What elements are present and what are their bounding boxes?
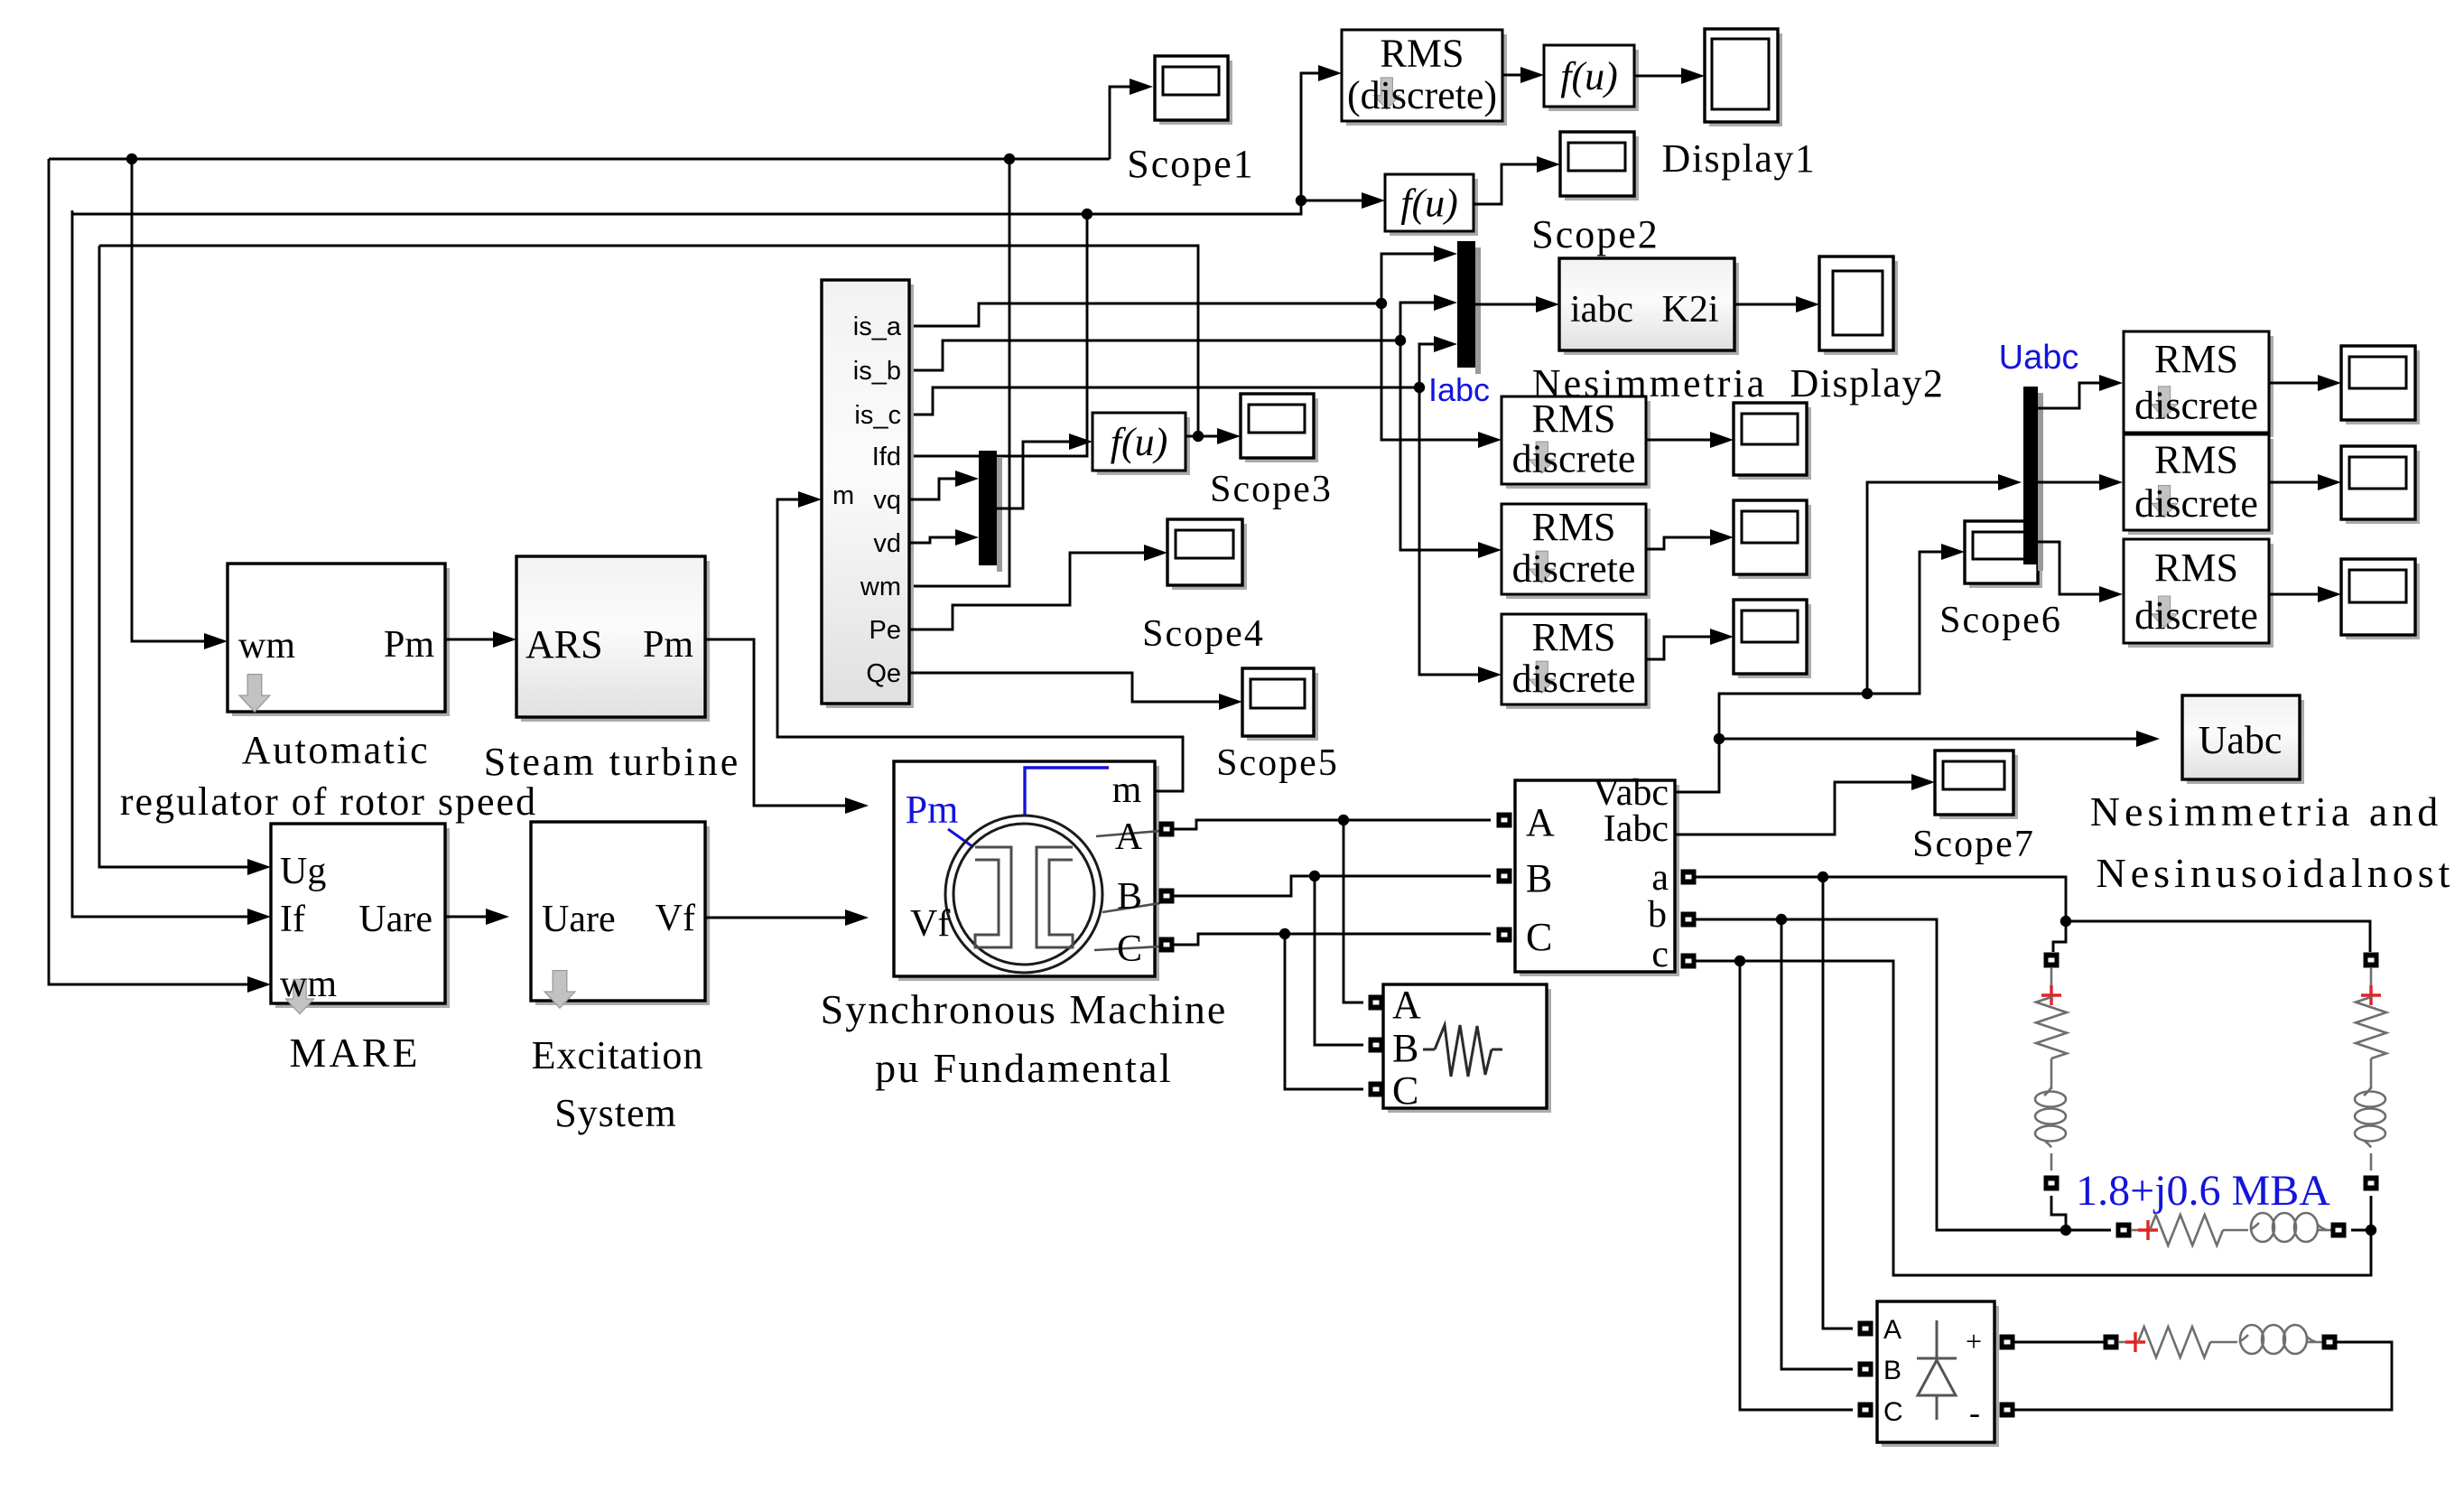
svg-text:Ug: Ug — [280, 851, 326, 892]
svg-text:RMS: RMS — [2154, 337, 2238, 381]
display square (XY) top right — [1709, 33, 1782, 126]
svg-text:Scope6: Scope6 — [1939, 600, 2062, 641]
node: is_b junction — [1395, 335, 1406, 346]
block Bus Selector (machine measurements demux) — [826, 284, 914, 708]
node: is_c junction / Iabc tag — [1414, 382, 1425, 393]
arrow into Scope1 — [1130, 79, 1153, 95]
wire: demux out 1 to RMS — [2038, 383, 2101, 408]
scope display after RMS2 — [1738, 505, 1811, 579]
svg-text:iabc: iabc — [1570, 289, 1633, 331]
load A input port — [1369, 995, 1384, 1011]
svg-text:discrete: discrete — [1512, 546, 1636, 591]
wire: MARE Uare to Excitation — [445, 916, 488, 919]
wire: f(u)2 to Scope2 — [1474, 164, 1539, 204]
arrow into MARE wm — [247, 976, 271, 993]
svg-text:System: System — [554, 1091, 677, 1135]
node: is_a junction — [1376, 298, 1387, 309]
block Uabc goto — [2187, 700, 2304, 784]
svg-text:-: - — [1969, 1394, 1980, 1431]
branch3 link — [2223, 1229, 2248, 1232]
wire: branch into Fcn f(u)2 — [1301, 200, 1363, 202]
svg-text:pu Fundamental: pu Fundamental — [875, 1045, 1173, 1091]
block Universal Bridge (diode rectifier) — [1882, 1306, 1999, 1447]
svg-text:K2i: K2i — [1662, 289, 1719, 331]
wire: f(u)1 to display square — [1634, 75, 1683, 78]
inductor branch4 — [2239, 1335, 2248, 1342]
svg-text:discrete: discrete — [2134, 481, 2258, 526]
branch2 lead — [2370, 967, 2373, 986]
svg-text:f(u): f(u) — [1111, 420, 1168, 464]
svg-text:MARE: MARE — [290, 1030, 421, 1076]
display Display2 square — [1824, 261, 1898, 355]
wire: Steam turbine Pm to Synchronous Machine Pm — [705, 639, 847, 806]
branch1 link — [2050, 1058, 2053, 1089]
svg-text:Steam turbine: Steam turbine — [484, 740, 741, 784]
svg-text:B: B — [1883, 1356, 1901, 1385]
diode symbol — [1917, 1320, 1957, 1420]
scope Scope6 — [1969, 526, 2042, 588]
wire: is_a riser/drop vertical — [1381, 254, 1480, 440]
svg-text:Iabc: Iabc — [1428, 371, 1490, 408]
arrow into f(u)3 — [1069, 434, 1093, 450]
block RMS discrete 3 (left stack) — [1506, 619, 1650, 709]
scope display right 1 — [2346, 350, 2420, 424]
svg-text:wm: wm — [860, 573, 901, 601]
svg-text:RMS: RMS — [2154, 437, 2238, 481]
wire: wm source from demux wm port — [909, 159, 1009, 586]
RLC branch 4 right port — [2322, 1335, 2338, 1350]
wire: branch 4 return to bridge - — [2014, 1342, 2392, 1410]
bridge C input port — [1858, 1403, 1874, 1418]
arrow into RMS discrete 1 — [1478, 432, 1502, 448]
block Three-Phase V-I Measurement — [1520, 785, 1679, 976]
svg-text:discrete: discrete — [1512, 436, 1636, 480]
demux Uabc (black bar) — [2023, 387, 2038, 564]
svg-text:RMS: RMS — [1532, 505, 1616, 549]
mux Mux1 (currents) — [1457, 241, 1475, 368]
svg-text:C: C — [1117, 928, 1142, 970]
VI C input port — [1497, 928, 1512, 943]
wire: C tap down to load C — [1285, 934, 1363, 1089]
svg-text:f(u): f(u) — [1560, 54, 1618, 98]
inductor branch2 — [2364, 1087, 2371, 1096]
wire: K2i to Display2 square — [1734, 303, 1798, 306]
arrow into Excitation Uare — [486, 909, 509, 925]
arrow into RMS right 2 — [2099, 474, 2123, 490]
scope Scope2 — [1565, 136, 1639, 200]
arrow into machine Pm — [845, 797, 869, 814]
arrow into Scope7 — [1911, 774, 1935, 790]
arrow into RMS discrete 2 — [1478, 542, 1502, 558]
branch1 lead — [2050, 967, 2053, 986]
wire: mux2 to f(u)3 — [997, 442, 1071, 508]
VI B input port — [1497, 869, 1512, 884]
arrow into Scope2 — [1537, 156, 1560, 173]
svg-text:is_c: is_c — [854, 401, 901, 430]
svg-text:Automatic: Automatic — [242, 728, 430, 772]
block iabc K2i — [1564, 263, 1739, 355]
svg-text:c: c — [1651, 934, 1669, 975]
wire: machine B to VI measurement B — [1174, 876, 1491, 896]
wire: wm drop to ARS wm input — [132, 159, 206, 641]
arrow into iabc K2i — [1536, 296, 1559, 312]
wire: machine A to VI measurement A — [1174, 820, 1491, 829]
arrow into Uabc demux — [1998, 474, 2022, 490]
arrow into machine Vf — [845, 909, 869, 926]
block RMS discrete 2 (left stack) — [1506, 508, 1650, 599]
branch1 red plus — [2041, 985, 2061, 1005]
block RMS discrete right 3 — [2128, 544, 2273, 648]
wire: phase a line — [1696, 877, 2066, 921]
svg-text:Vf: Vf — [656, 898, 695, 939]
block Fcn f(u)2 — [1390, 179, 1478, 236]
node: phase c tap to rectifier C — [1734, 956, 1745, 966]
svg-text:Iabc: Iabc — [1604, 808, 1669, 850]
svg-text:ARS: ARS — [525, 622, 603, 667]
wire: c drop to rectifier C — [1740, 961, 1853, 1410]
svg-text:Scope2: Scope2 — [1531, 212, 1660, 256]
svg-text:Scope3: Scope3 — [1210, 469, 1333, 510]
VI a output port — [1681, 870, 1697, 885]
load C input port — [1369, 1082, 1384, 1097]
arrow into right scope 1 — [2318, 375, 2341, 391]
arrow into mux input 2 — [1434, 294, 1457, 311]
scope Scope3 — [1245, 398, 1318, 462]
wire: If bus left drop to MARE If input — [72, 210, 249, 917]
svg-text:discrete: discrete — [1512, 657, 1636, 701]
branch2 red plus — [2361, 985, 2381, 1005]
arrow into Scope5 — [1219, 694, 1242, 710]
wire: phase c line — [1696, 961, 2371, 1275]
block Excitation System — [535, 826, 710, 1005]
svg-text:Scope4: Scope4 — [1142, 613, 1265, 655]
wire: Ug feedback bus line (y=272) — [99, 246, 1198, 436]
node: phase b tap to rectifier B — [1776, 914, 1787, 925]
svg-text:m: m — [1112, 769, 1142, 811]
svg-text:RMS: RMS — [1532, 396, 1616, 441]
branch2 lead bottom — [2370, 1153, 2373, 1170]
svg-text:Vf: Vf — [910, 903, 950, 945]
wire: Ifd source from demux Ifd port — [909, 214, 1087, 456]
arrow vd into mux2 — [955, 529, 979, 546]
wire: bridge + to RLC branch 4 — [2014, 1341, 2105, 1344]
svg-text:1.8+j0.6 MBA: 1.8+j0.6 MBA — [2076, 1167, 2330, 1215]
node: phase b / left branch / RLC1 junction — [2060, 1225, 2071, 1236]
block Automatic regulator of rotor speed (ARS) — [232, 568, 450, 716]
wire: Vabc output riser — [1675, 694, 1867, 792]
machine C output port — [1159, 937, 1175, 953]
arrow vq into mux2 — [955, 471, 979, 487]
wire: mux to iabc K2i — [1475, 303, 1538, 306]
RLC branch 3 left port — [2116, 1223, 2132, 1238]
arrow into scope display 2 — [1710, 529, 1734, 546]
svg-text:A: A — [1392, 983, 1421, 1027]
svg-text:m: m — [832, 481, 854, 510]
wire: vq to mux2 — [909, 479, 957, 499]
arrow into Display2 square — [1796, 296, 1819, 312]
wire: left branch bottom to junction — [2051, 1196, 2066, 1230]
svg-text:C: C — [1392, 1068, 1418, 1113]
wire: RMS1 to scope display — [1646, 439, 1712, 442]
machine m measurement tap (blue) — [1025, 768, 1109, 816]
machine icon rotor brackets — [975, 847, 1011, 947]
branch4 lead — [2118, 1341, 2129, 1344]
wire: Pe to Scope4 — [909, 553, 1146, 629]
wire: demux out 3 to RMS — [2038, 542, 2101, 594]
wire: RMS to f(u)1 — [1502, 74, 1522, 77]
block Fcn f(u)1 — [1548, 50, 1639, 111]
svg-text:Pe: Pe — [869, 616, 901, 645]
block Steam turbine — [521, 561, 710, 722]
block RMS discrete right 1 — [2128, 336, 2273, 437]
scope Scope1 — [1159, 61, 1232, 125]
arrow into demux m input — [798, 491, 822, 508]
svg-text:is_a: is_a — [853, 312, 902, 341]
svg-text:(discrete): (discrete) — [1347, 73, 1497, 117]
wire: Iabc output to Scope7 — [1675, 782, 1913, 835]
svg-text:C: C — [1883, 1397, 1903, 1427]
machine A output port — [1159, 822, 1175, 837]
svg-text:Uare: Uare — [542, 899, 616, 940]
svg-text:RMS: RMS — [2154, 546, 2238, 590]
node: wm riser junction from demux wm port — [1004, 154, 1015, 164]
wire: machine C to VI measurement C — [1174, 934, 1491, 945]
svg-text:Display2: Display2 — [1790, 361, 1945, 406]
node: phase B tap to load — [1309, 871, 1320, 881]
arrow into right scope 3 — [2318, 586, 2341, 602]
arrow into Steam turbine — [493, 631, 516, 648]
svg-text:C: C — [1526, 915, 1552, 959]
wire: Vabc branch to Scope6 — [1867, 552, 1943, 694]
wire: is_a from demux — [909, 303, 1381, 326]
svg-text:discrete: discrete — [2134, 383, 2258, 427]
arrow into Uabc goto — [2136, 731, 2160, 747]
node: phase a tap to rectifier A — [1818, 872, 1828, 882]
RLC branch 3 right port — [2331, 1223, 2347, 1238]
VI c output port — [1681, 954, 1697, 969]
svg-text:A: A — [1115, 816, 1143, 858]
svg-text:Scope5: Scope5 — [1216, 742, 1339, 784]
svg-text:Display1: Display1 — [1662, 136, 1817, 181]
wire: Ug bus left drop to MARE Ug input — [99, 246, 249, 867]
arrow into Scope3 — [1217, 428, 1241, 444]
branch4 lead right — [2307, 1341, 2322, 1344]
block Fcn f(u)3 — [1097, 417, 1190, 475]
arrow into RMS (discrete) — [1318, 65, 1342, 81]
inductor branch3 — [2250, 1223, 2259, 1230]
svg-text:RMS: RMS — [1532, 615, 1616, 659]
scope display right 3 — [2346, 564, 2420, 639]
svg-text:Synchronous Machine: Synchronous Machine — [821, 986, 1228, 1032]
arrow into scope display 1 — [1710, 432, 1734, 448]
arrow into f(u)2 — [1362, 192, 1385, 209]
bridge + output port — [2000, 1335, 2015, 1350]
wire: RMS2 to scope display — [1646, 537, 1712, 549]
branch4 link — [2210, 1341, 2237, 1344]
wire: vd to mux2 — [909, 537, 957, 543]
svg-text:vq: vq — [873, 486, 901, 515]
block RMS discrete right 2 — [2128, 439, 2273, 535]
arrow into RMS right 3 — [2099, 586, 2123, 602]
wire: phase b line — [1696, 919, 2111, 1230]
wire: f(u)3 to Scope3 — [1186, 435, 1219, 438]
mux Mux2 (vq vd) — [979, 451, 997, 565]
VI A input port — [1497, 813, 1512, 828]
svg-text:is_b: is_b — [853, 357, 901, 386]
svg-text:A: A — [1883, 1315, 1901, 1345]
branch1 lead bottom — [2050, 1153, 2053, 1170]
branch3 lead — [2131, 1229, 2142, 1232]
wire: riser to Scope1 — [1110, 87, 1131, 159]
svg-text:B: B — [1392, 1026, 1418, 1070]
svg-text:f(u): f(u) — [1400, 182, 1458, 226]
block RMS (discrete) top — [1346, 34, 1507, 126]
arrow into mux input 1 — [1434, 246, 1457, 262]
block Three-Phase Series RLC Load — [1388, 989, 1551, 1113]
wire: Vabc up to demux input — [1867, 482, 2000, 694]
arrow into right scope 2 — [2318, 474, 2341, 490]
node: Ifd riser junction — [1082, 209, 1093, 219]
resistor branch1 — [2036, 997, 2067, 1058]
node: f(u)3 output branch (Ug) — [1193, 431, 1204, 442]
svg-text:Uabc: Uabc — [2199, 718, 2283, 762]
RLC branch 1 top port — [2044, 953, 2060, 968]
wire: Qe to Scope5 — [909, 673, 1221, 702]
svg-text:wm: wm — [238, 625, 295, 667]
scope Scope7 — [1939, 755, 2018, 819]
wire: is_c from demux — [909, 387, 1419, 415]
wire: demux out 2 to RMS — [2038, 481, 2101, 484]
svg-text:Scope1: Scope1 — [1127, 142, 1255, 186]
arrow into Scope4 — [1144, 545, 1167, 561]
svg-text:a: a — [1651, 857, 1669, 899]
svg-text:Pm: Pm — [384, 624, 434, 666]
resistor branch4 — [2138, 1327, 2210, 1357]
arrow into mux input 3 — [1434, 336, 1457, 352]
wire: a drop to rectifier A — [1823, 877, 1853, 1329]
wire: RMS right 2 to scope — [2268, 481, 2320, 484]
node: phase C tap to load — [1279, 928, 1290, 939]
RLC branch 1 bottom port — [2044, 1176, 2060, 1191]
arrow into ARS wm — [204, 633, 228, 649]
node: Vabc branch point right — [1862, 688, 1873, 699]
arrow into scope display 3 — [1710, 629, 1734, 645]
branch4 red plus — [2125, 1332, 2145, 1352]
svg-text:wm: wm — [280, 964, 337, 1005]
block Synchronous Machine pu Fundamental — [898, 766, 1159, 981]
machine icon circle — [945, 816, 1102, 973]
svg-text:Qe: Qe — [866, 659, 901, 688]
svg-text:Nesinusoidalnost: Nesinusoidalnost — [2097, 850, 2455, 896]
svg-text:Uare: Uare — [358, 899, 432, 940]
svg-text:Excitation: Excitation — [532, 1033, 704, 1077]
svg-text:b: b — [1648, 894, 1667, 936]
branch3 red plus — [2138, 1220, 2158, 1240]
bridge B input port — [1858, 1362, 1874, 1377]
VI b output port — [1681, 912, 1697, 928]
svg-text:Ifd: Ifd — [872, 443, 901, 471]
arrow into MARE If — [247, 909, 271, 925]
scope Scope5 — [1247, 673, 1318, 741]
svg-text:A: A — [1526, 800, 1555, 844]
wire: RMS3 to scope display — [1646, 637, 1712, 659]
svg-text:+: + — [1966, 1325, 1982, 1357]
wire: a to left branch top — [2053, 921, 2066, 952]
machine A/B/C stub lines — [1094, 831, 1160, 950]
wire: Vabc branch to Uabc goto — [1719, 738, 2138, 741]
resistor branch2 — [2356, 997, 2386, 1058]
wire: Excitation Vf to machine Vf — [705, 917, 847, 919]
wire: RMS right 3 to scope — [2268, 593, 2320, 596]
scope display after RMS1 — [1738, 407, 1811, 480]
svg-text:regulator of rotor speed: regulator of rotor speed — [120, 779, 537, 824]
arrow into RMS discrete 3 — [1478, 667, 1502, 683]
wire: machine m output to demux m input — [777, 499, 1183, 791]
wire: wm feedback bus line (top, y=176) — [49, 158, 1110, 161]
svg-text:Pm: Pm — [906, 788, 959, 832]
svg-text:B: B — [1526, 856, 1552, 900]
block MARE (voltage regulator) — [275, 828, 450, 1008]
inductor branch1 — [2044, 1087, 2051, 1096]
svg-text:Pm: Pm — [643, 624, 693, 666]
node: phase a split to branches — [2060, 916, 2071, 927]
node: phase c / right branch / RLC1 junction — [2366, 1225, 2376, 1236]
arrow into RMS right 1 — [2099, 375, 2123, 391]
wire: b drop to rectifier B — [1781, 919, 1853, 1369]
bridge - output port — [2000, 1403, 2015, 1418]
svg-text:Nesimmetria and: Nesimmetria and — [2090, 788, 2443, 835]
wire: a to right branch top — [2066, 921, 2370, 952]
arrow into MARE Ug — [247, 859, 271, 875]
machine B output port — [1159, 889, 1175, 904]
scope display after RMS3 — [1738, 604, 1811, 678]
wire: RMS right 1 to scope — [2268, 382, 2320, 385]
svg-text:B: B — [1117, 876, 1142, 918]
branch3 lead right — [2318, 1229, 2331, 1232]
wire: ARS Pm to Steam turbine — [445, 639, 495, 641]
RLC branch 2 top port — [2364, 953, 2379, 968]
wire: If feedback bus line (y=237) — [72, 200, 1301, 214]
svg-text:RMS: RMS — [1381, 31, 1464, 75]
scope Scope4 — [1172, 524, 1247, 590]
wire: wm bus left drop to MARE wm input — [49, 159, 249, 984]
wire: B tap down to load B — [1315, 876, 1363, 1045]
resistor branch3 — [2150, 1215, 2223, 1245]
wire: branch up to RMS (discrete) — [1301, 73, 1320, 200]
block RMS discrete 1 (left stack) — [1506, 401, 1650, 489]
wire: is_c riser/drop vertical — [1419, 344, 1480, 675]
node: branch to f(u) and RMS discrete — [1296, 195, 1306, 206]
wire: A tap down to load A — [1344, 820, 1363, 1002]
arrow into Scope6 — [1941, 544, 1965, 560]
node: wm bus junction to ARS — [126, 154, 137, 164]
svg-text:Uabc: Uabc — [1999, 339, 2079, 377]
node: phase A tap to load — [1338, 815, 1349, 825]
RLC branch 4 left port — [2104, 1335, 2119, 1350]
wire: is_b from demux — [909, 340, 1400, 370]
svg-text:vd: vd — [873, 529, 901, 558]
svg-text:Scope7: Scope7 — [1912, 824, 2035, 865]
svg-text:discrete: discrete — [2134, 593, 2258, 638]
svg-text:If: If — [280, 899, 305, 940]
arrow into f(u)1 — [1520, 67, 1544, 83]
scope display right 2 — [2346, 451, 2420, 524]
RLC branch 2 bottom port — [2364, 1176, 2379, 1191]
arrow into display square — [1681, 68, 1705, 84]
node: Vabc to Uabc goto — [1714, 733, 1725, 744]
wire: RLC1 right port to junction — [2351, 1229, 2371, 1232]
wire: is_b riser/drop vertical — [1400, 303, 1480, 550]
